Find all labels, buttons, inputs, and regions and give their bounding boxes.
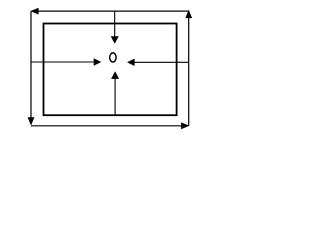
inner rectangle — [44, 24, 177, 116]
center label O — [110, 53, 116, 62]
center arrow from left (points right at O) — [31, 58, 101, 65]
outer loop: right edge arrow (points up) — [185, 10, 192, 126]
outer loop: top edge arrow (points left) — [30, 8, 189, 15]
outer loop: bottom edge arrow (points right) — [31, 122, 189, 129]
outer loop: left edge arrow (points down) — [28, 11, 35, 126]
center arrow from top (points down at O) — [111, 11, 119, 44]
center arrow from right (points left at O) — [127, 59, 189, 66]
center arrow from bottom (points up at O) — [111, 71, 119, 115]
